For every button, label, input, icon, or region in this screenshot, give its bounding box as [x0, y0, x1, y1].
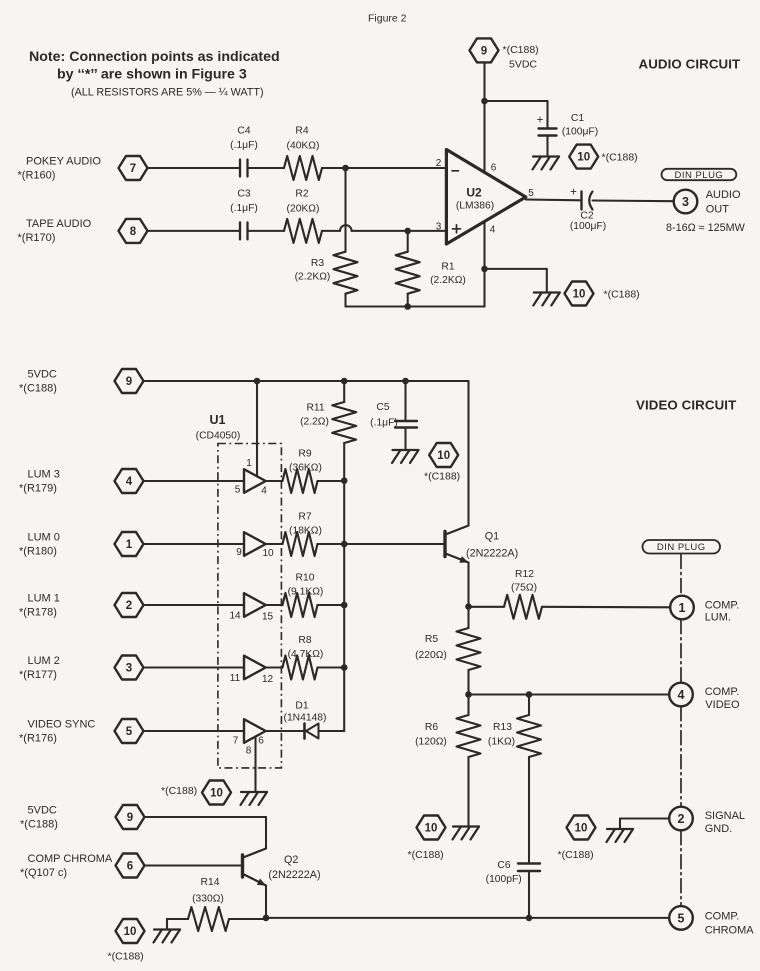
svg-text:(2N2222A): (2N2222A) — [466, 548, 518, 560]
svg-text:DIN PLUG: DIN PLUG — [657, 542, 706, 553]
svg-text:*(C188): *(C188) — [408, 849, 444, 861]
svg-text:R11: R11 — [306, 403, 324, 414]
svg-text:*(R170): *(R170) — [18, 232, 56, 244]
svg-text:(.1μF): (.1μF) — [230, 203, 258, 214]
svg-text:10: 10 — [124, 926, 137, 938]
svg-text:1: 1 — [679, 601, 686, 615]
svg-text:5: 5 — [235, 485, 241, 496]
svg-text:R1: R1 — [441, 262, 454, 273]
svg-text:R7: R7 — [298, 512, 311, 523]
svg-text:Figure 2: Figure 2 — [368, 13, 407, 25]
svg-text:5: 5 — [126, 726, 133, 738]
svg-text:Q1: Q1 — [485, 531, 499, 543]
svg-text:9: 9 — [127, 812, 133, 824]
svg-text:R4: R4 — [295, 126, 308, 137]
svg-text:(330Ω): (330Ω) — [192, 894, 224, 905]
svg-text:(75Ω): (75Ω) — [511, 583, 537, 594]
svg-text:(40KΩ): (40KΩ) — [287, 141, 320, 152]
svg-text:3: 3 — [126, 663, 132, 675]
svg-text:*(C188): *(C188) — [558, 849, 594, 861]
svg-text:(18KΩ): (18KΩ) — [289, 526, 322, 537]
svg-text:12: 12 — [262, 674, 274, 685]
svg-text:LUM 0: LUM 0 — [28, 532, 60, 544]
svg-text:by ‘‘*’’ are shown in Figure 3: by ‘‘*’’ are shown in Figure 3 — [57, 67, 247, 83]
svg-text:(ALL RESISTORS ARE 5% — ¼ WATT: (ALL RESISTORS ARE 5% — ¼ WATT) — [71, 87, 264, 99]
svg-text:*(R176): *(R176) — [19, 733, 57, 745]
svg-text:5VDC: 5VDC — [509, 59, 537, 71]
svg-text:10: 10 — [577, 152, 590, 164]
svg-text:15: 15 — [262, 612, 274, 623]
svg-text:(100μF): (100μF) — [562, 127, 598, 138]
svg-text:10: 10 — [262, 548, 274, 559]
svg-text:*(C188): *(C188) — [108, 951, 144, 963]
svg-text:Q2: Q2 — [284, 854, 298, 866]
svg-text:POKEY AUDIO: POKEY AUDIO — [26, 156, 101, 168]
svg-text:R10: R10 — [296, 573, 315, 584]
svg-text:*(C188): *(C188) — [424, 471, 460, 483]
svg-text:4: 4 — [490, 225, 496, 236]
svg-text:6: 6 — [127, 861, 133, 873]
svg-text:(.1μF): (.1μF) — [370, 418, 398, 429]
svg-text:6: 6 — [258, 736, 264, 747]
svg-text:(2.2KΩ): (2.2KΩ) — [295, 272, 331, 283]
svg-text:R6: R6 — [425, 722, 438, 733]
svg-text:COMP.: COMP. — [705, 599, 740, 611]
svg-text:Note: Connection points as ind: Note: Connection points as indicated — [29, 49, 280, 65]
svg-text:(100pF): (100pF) — [486, 874, 522, 885]
svg-text:U2: U2 — [466, 186, 482, 200]
svg-text:*(C188): *(C188) — [503, 44, 539, 56]
svg-text:*(R179): *(R179) — [19, 483, 57, 495]
svg-text:11: 11 — [230, 673, 241, 684]
svg-text:*(C188): *(C188) — [20, 819, 58, 831]
svg-text:LUM 3: LUM 3 — [28, 469, 60, 481]
svg-text:CHROMA: CHROMA — [705, 924, 755, 936]
svg-text:OUT: OUT — [706, 204, 730, 216]
svg-text:VIDEO CIRCUIT: VIDEO CIRCUIT — [636, 398, 736, 413]
svg-text:R8: R8 — [298, 635, 311, 646]
svg-text:AUDIO CIRCUIT: AUDIO CIRCUIT — [639, 57, 741, 72]
svg-text:7: 7 — [233, 736, 239, 747]
svg-text:COMP.: COMP. — [705, 686, 740, 698]
svg-text:*(R177): *(R177) — [19, 669, 57, 681]
svg-text:U1: U1 — [210, 413, 226, 427]
svg-text:*(R178): *(R178) — [19, 607, 57, 619]
svg-text:8-16Ω ≈ 125MW: 8-16Ω ≈ 125MW — [666, 222, 746, 234]
svg-text:*(Q107 c): *(Q107 c) — [20, 867, 67, 879]
svg-text:3: 3 — [682, 195, 689, 209]
svg-text:9: 9 — [126, 376, 132, 388]
svg-text:4: 4 — [678, 688, 685, 702]
svg-text:*(C188): *(C188) — [602, 152, 638, 164]
svg-text:D1: D1 — [295, 701, 308, 712]
svg-text:VIDEO SYNC: VIDEO SYNC — [28, 719, 96, 731]
svg-text:*(C188): *(C188) — [19, 383, 57, 395]
svg-text:1: 1 — [246, 458, 252, 469]
svg-text:(36KΩ): (36KΩ) — [289, 463, 322, 474]
svg-text:VIDEO: VIDEO — [705, 699, 740, 711]
svg-text:5VDC: 5VDC — [28, 805, 57, 817]
svg-text:R14: R14 — [201, 877, 220, 888]
svg-text:(20KΩ): (20KΩ) — [287, 204, 320, 215]
svg-text:LUM 1: LUM 1 — [28, 593, 60, 605]
svg-text:(1KΩ): (1KΩ) — [488, 737, 515, 748]
svg-text:(2.2Ω): (2.2Ω) — [300, 417, 329, 428]
svg-text:C5: C5 — [376, 402, 389, 413]
svg-text:(9.1KΩ): (9.1KΩ) — [288, 587, 324, 598]
svg-text:8: 8 — [130, 226, 137, 238]
svg-text:8: 8 — [246, 746, 252, 757]
svg-text:(220Ω): (220Ω) — [415, 650, 447, 661]
svg-text:5: 5 — [528, 188, 534, 199]
svg-text:*(C188): *(C188) — [161, 785, 197, 797]
svg-text:10: 10 — [437, 450, 450, 462]
svg-text:R9: R9 — [298, 449, 311, 460]
svg-text:2: 2 — [436, 158, 442, 169]
svg-text:10: 10 — [425, 823, 438, 835]
svg-text:LUM 2: LUM 2 — [28, 655, 60, 667]
svg-text:AUDIO: AUDIO — [706, 189, 741, 201]
svg-text:9: 9 — [236, 547, 242, 558]
svg-text:(CD4050): (CD4050) — [196, 431, 241, 442]
svg-text:10: 10 — [573, 289, 586, 301]
svg-text:SIGNAL: SIGNAL — [705, 810, 745, 822]
svg-text:2: 2 — [678, 812, 685, 826]
svg-text:(100μF): (100μF) — [570, 221, 606, 232]
svg-text:(2.2KΩ): (2.2KΩ) — [430, 275, 466, 286]
svg-text:COMP.: COMP. — [705, 910, 740, 922]
svg-text:10: 10 — [575, 823, 588, 835]
svg-text:14: 14 — [229, 611, 241, 622]
svg-text:R12: R12 — [515, 569, 534, 580]
svg-text:1: 1 — [126, 539, 133, 551]
svg-text:10: 10 — [210, 788, 223, 800]
svg-text:3: 3 — [436, 222, 442, 233]
svg-text:(120Ω): (120Ω) — [415, 737, 447, 748]
svg-text:4: 4 — [126, 476, 133, 488]
svg-text:9: 9 — [481, 46, 487, 58]
svg-text:C4: C4 — [237, 126, 250, 137]
svg-text:2: 2 — [126, 600, 132, 612]
svg-text:R13: R13 — [493, 722, 512, 733]
svg-text:(4.7KΩ): (4.7KΩ) — [288, 649, 324, 660]
svg-text:TAPE AUDIO: TAPE AUDIO — [26, 218, 92, 230]
svg-text:(LM386): (LM386) — [456, 201, 494, 212]
svg-text:COMP CHROMA: COMP CHROMA — [28, 853, 113, 865]
svg-text:R2: R2 — [295, 189, 308, 200]
svg-text:GND.: GND. — [705, 823, 733, 835]
svg-text:DIN PLUG: DIN PLUG — [674, 170, 723, 181]
svg-text:C3: C3 — [237, 189, 250, 200]
svg-text:(.1μF): (.1μF) — [230, 140, 258, 151]
svg-text:6: 6 — [491, 163, 497, 174]
svg-text:*(R160): *(R160) — [18, 170, 56, 182]
svg-text:5VDC: 5VDC — [28, 369, 57, 381]
svg-text:*(R180): *(R180) — [19, 546, 57, 558]
svg-text:C2: C2 — [580, 211, 593, 222]
svg-text:*(C188): *(C188) — [604, 289, 640, 301]
svg-text:LUM.: LUM. — [705, 611, 731, 623]
svg-text:R5: R5 — [425, 634, 438, 645]
svg-text:7: 7 — [130, 163, 136, 175]
svg-text:+: + — [537, 115, 544, 127]
svg-text:+: + — [570, 187, 577, 199]
svg-text:4: 4 — [261, 486, 267, 497]
svg-text:5: 5 — [678, 911, 685, 925]
svg-text:(2N2222A): (2N2222A) — [268, 869, 320, 881]
svg-text:C6: C6 — [497, 860, 510, 871]
svg-text:(1N4148): (1N4148) — [284, 713, 327, 724]
svg-text:R3: R3 — [311, 258, 324, 269]
svg-text:C1: C1 — [571, 113, 584, 124]
